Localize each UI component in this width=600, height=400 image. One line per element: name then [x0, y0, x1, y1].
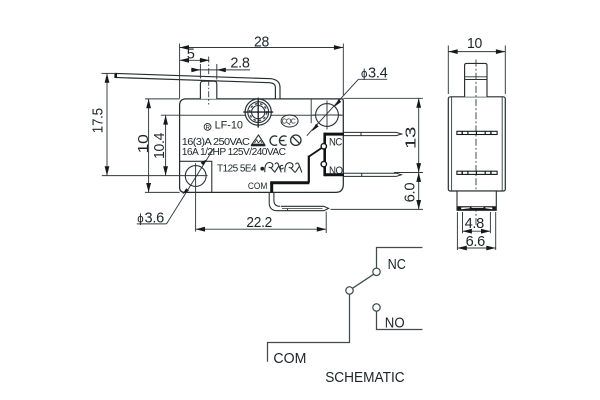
dim 10 extensions [145, 98, 180, 100]
dim 10 line [148, 99, 150, 192]
pivot boss circles [245, 99, 271, 125]
svg-text:6.6: 6.6 [466, 234, 486, 250]
dim 17.5 line [106, 73, 108, 175]
UR recognized mark 1 [265, 162, 282, 172]
dim 10 (side) line [448, 51, 505, 53]
lever arm [116, 73, 281, 99]
mounting hole top-right (phi 3.4) [316, 104, 339, 127]
wire: COM lead [268, 294, 350, 362]
dim 6.0 line [418, 173, 420, 210]
NC fixed contact bar (thick) [325, 133, 344, 136]
NO fixed contact bar (thick) [325, 173, 344, 176]
svg-text:28: 28 [254, 35, 269, 51]
svg-text:10: 10 [136, 134, 152, 153]
svg-text:NO: NO [329, 165, 343, 177]
side bottom section [457, 191, 496, 210]
side inner wall left [451, 97, 453, 191]
svg-text:10.4: 10.4 [152, 133, 168, 159]
lever tip cap [114, 73, 117, 78]
svg-text:10: 10 [467, 36, 482, 52]
dim 17.5 extension (top, at lever tip) [102, 72, 116, 74]
switch body outline [180, 99, 344, 192]
UR recognized mark 2 [280, 163, 302, 173]
dim 2.8 line with outside arrows [191, 69, 250, 71]
svg-text:LF-10: LF-10 [215, 120, 243, 132]
NC terminal pin [344, 132, 402, 135]
side terminal slot upper [457, 131, 497, 134]
COM bus horizontal (thick) [270, 181, 309, 184]
boss crosshair [243, 111, 273, 113]
NO contact point [321, 161, 326, 166]
svg-text:NC: NC [329, 137, 343, 149]
COM bus vertical (thick) [270, 183, 273, 193]
CE mark [270, 136, 277, 145]
svg-text:6.0: 6.0 [402, 183, 418, 203]
dim 6.6 line [457, 247, 495, 249]
svg-text:COM: COM [273, 350, 306, 367]
svg-text:2.8: 2.8 [230, 55, 249, 71]
svg-text:13: 13 [403, 127, 419, 149]
side bottom slot [457, 206, 496, 210]
phi 3.6 leader line [167, 148, 214, 224]
svg-text:T125 5E4: T125 5E4 [217, 163, 257, 174]
mounting boss bottom-left [180, 161, 212, 192]
side centerline (dash-dot) [475, 60, 477, 226]
registered trademark symbol [204, 124, 211, 131]
mounting hole (phi 3.6) [185, 166, 206, 187]
dim 5 line [180, 59, 210, 61]
dim 10 (side) extensions [447, 46, 449, 95]
node NC contact [373, 268, 380, 275]
dim 13 extensions [343, 97, 423, 99]
COM terminal pin below body [269, 193, 328, 211]
dim 6.0 extension (COM pin level) [331, 208, 424, 210]
dim 10.4 extension [161, 114, 180, 116]
svg-text:NC: NC [388, 256, 406, 273]
svg-text:22.2: 22.2 [246, 215, 272, 231]
svg-text:CQC: CQC [282, 119, 296, 126]
side body outline [448, 97, 505, 191]
svg-text:COM: COM [248, 181, 268, 192]
switch blade (common to NC) [353, 274, 374, 288]
dim 22.2 extension right (at COM pin tip) [325, 212, 327, 234]
node NO contact [373, 304, 380, 311]
NO terminal pin [344, 173, 401, 176]
wire: NC lead [377, 248, 423, 269]
NC contact point [321, 144, 326, 149]
dim 28 line [180, 47, 344, 49]
svg-text:17.5: 17.5 [91, 108, 107, 133]
slashed circle mark [291, 135, 301, 145]
dim 6.6 extensions [456, 212, 458, 250]
dim 13 line [418, 98, 420, 172]
svg-text:ϕ: ϕ [361, 68, 367, 80]
CQC oval mark [281, 115, 298, 127]
svg-text:R: R [206, 124, 211, 131]
plunger button under lever [200, 81, 216, 99]
side plunger band [465, 76, 487, 78]
plunger centerline (dash-dot) [208, 57, 210, 105]
dim 2.8 extension lines [199, 64, 201, 79]
phi 3.4 leader line [307, 79, 359, 135]
dim 28 extension lines [179, 44, 181, 99]
svg-text:5: 5 [187, 46, 195, 62]
hole centerline horizontal / 17.5 and 10.4 extension [102, 175, 208, 177]
hole centerline vertical / 22.2 extension [195, 163, 197, 231]
svg-text:SCHEMATIC: SCHEMATIC [325, 370, 405, 386]
wire: NO lead [377, 311, 423, 329]
side terminal slot lower [457, 171, 497, 174]
dim 22.2 line [196, 228, 327, 230]
contact block vertical bar (thick) [323, 133, 326, 177]
wire: internal seam line across body [180, 114, 343, 116]
side plunger [465, 63, 487, 96]
svg-text:NO: NO [385, 314, 405, 331]
dim 4.8 line [463, 230, 491, 232]
side inner wall right [501, 97, 503, 191]
dim 4.8 extensions [462, 212, 464, 233]
moving blade vertical [308, 156, 310, 183]
node common pivot [346, 287, 353, 294]
moving blade diagonal [309, 148, 321, 156]
svg-text:16A 1/2HP 125V/240VAC: 16A 1/2HP 125V/240VAC [182, 147, 286, 158]
dim 10.4 line [165, 115, 167, 175]
terminal block edge line [310, 99, 312, 123]
separator dot [260, 167, 264, 171]
triangle approval mark [252, 135, 264, 144]
svg-text:4.8: 4.8 [465, 216, 485, 232]
